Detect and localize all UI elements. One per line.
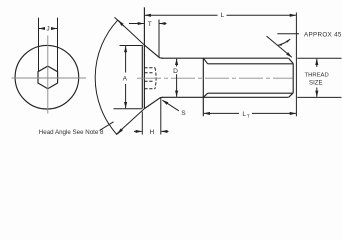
socket hidden top outer dashed (144, 67, 155, 69)
thread start vertical (202, 58, 204, 116)
thread root top line (208, 63, 293, 65)
J extension line right (57, 18, 59, 72)
svg-text:SIZE: SIZE (309, 80, 323, 87)
head face outer line (141, 45, 143, 109)
head angle extension bottom (116, 109, 144, 135)
svg-text:L: L (242, 111, 246, 118)
A dimension top arrow (125, 46, 127, 72)
head angle extension top (115, 17, 145, 45)
head circle (15, 45, 79, 109)
T / socket extension line (158, 20, 160, 58)
left view vertical centerline (47, 36, 49, 114)
svg-text:L: L (220, 12, 224, 19)
thread size top extension (297, 57, 341, 59)
end chamfer bottom (289, 93, 294, 97)
A bottom extension line (114, 108, 142, 110)
svg-text:S: S (181, 110, 186, 117)
A top extension line (120, 45, 142, 47)
left view horizontal centerline (12, 77, 87, 79)
head angle arc arrow top (118, 20, 123, 26)
shaft top line (162, 57, 288, 59)
approx 45 leader horizontal (277, 33, 299, 35)
shaft bottom line (162, 96, 288, 98)
svg-text:H: H (150, 129, 155, 136)
H left extension stub (141, 112, 143, 135)
thread size bottom extension (297, 96, 341, 98)
approx 45 angle arc (278, 39, 291, 45)
svg-text:J: J (46, 25, 49, 32)
socket hidden bottom outer dashed (144, 88, 155, 90)
head angle leader (100, 122, 114, 131)
svg-text:D: D (173, 68, 178, 75)
S leader (162, 100, 178, 111)
thread root bottom line (208, 92, 293, 94)
svg-text:A: A (123, 76, 128, 83)
H extension line (160, 98, 162, 135)
cone bottom face (144, 97, 163, 108)
approx 45 chamfer extension diagonal (267, 36, 292, 57)
A dimension bottom arrow (125, 84, 127, 108)
svg-text:T: T (148, 21, 152, 28)
end chamfer top (289, 58, 294, 63)
thread size bottom arrow (316, 88, 318, 97)
LT dimension line left (204, 112, 239, 114)
LT dimension line right (252, 112, 296, 114)
J dimension left arrow (39, 28, 45, 30)
cone top face (144, 45, 163, 58)
svg-text:THREAD: THREAD (304, 72, 328, 78)
thread size top arrow (316, 59, 318, 67)
hex socket (38, 66, 58, 89)
socket hidden top inner dashed (144, 72, 153, 74)
head angle arc (95, 20, 118, 135)
thread runout top diagonal (203, 58, 207, 64)
screw axis centerline (137, 77, 293, 79)
svg-text:T: T (247, 113, 250, 119)
D dimension bottom arrow (176, 74, 178, 97)
J extension line left (38, 18, 40, 72)
socket bottom dashed arc (155, 68, 156, 89)
socket hidden bottom inner dashed (144, 80, 153, 82)
H dimension left arrow (134, 130, 142, 132)
head face / L-T extension line (143, 7, 145, 108)
J dimension right arrow (51, 28, 57, 30)
T dimension right arrow (160, 23, 167, 25)
right extension line (295, 13, 297, 117)
head angle arc arrow bottom (117, 129, 122, 134)
D dimension top arrow (176, 59, 178, 67)
svg-text:Head Angle See Note 8: Head Angle See Note 8 (39, 129, 104, 136)
end face (292, 64, 294, 93)
L dimension line left part (145, 14, 218, 16)
T dimension left arrow (129, 23, 144, 25)
svg-text:APPROX 45°: APPROX 45° (304, 31, 342, 39)
thread runout bottom diagonal (203, 93, 207, 97)
L dimension line right part (227, 14, 296, 16)
H dimension right arrow (161, 130, 168, 132)
